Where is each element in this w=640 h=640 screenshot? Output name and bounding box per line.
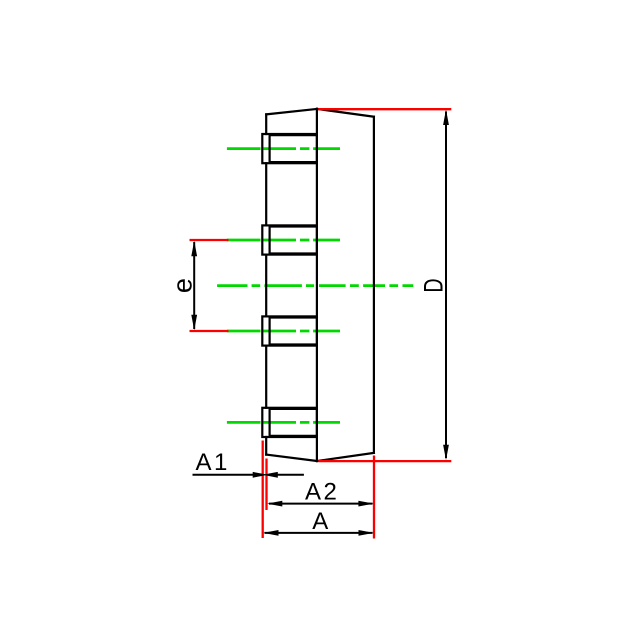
port socket 1 (262, 134, 317, 163)
dimension A1 arrow right-pointing (253, 472, 268, 478)
dimension A1 leader line left (193, 474, 257, 476)
top-left slope (266, 109, 317, 115)
dimension D arrow down (443, 445, 449, 461)
dimension D arrow up (443, 110, 449, 126)
svg-text:e: e (168, 278, 198, 293)
dimension e arrow down (191, 315, 197, 331)
left face wall segments (265, 114, 267, 454)
red extension line e top (190, 239, 229, 241)
svg-text:A: A (312, 508, 328, 535)
red extension line e bottom (190, 330, 229, 332)
port socket 4 (262, 408, 317, 437)
bottom-left slope (266, 455, 317, 461)
red extension line A right (373, 456, 375, 539)
mid joint line (316, 109, 318, 461)
dimension A arrow left (263, 530, 278, 536)
dimension D line (445, 112, 447, 459)
centerline middle axis (217, 284, 413, 287)
dimension A2 line (269, 503, 373, 505)
centerline port 4 (227, 421, 340, 424)
red extension line top (D) (318, 108, 451, 110)
right face wall (373, 117, 375, 453)
red extension line A1 right (265, 459, 267, 511)
svg-text:D: D (418, 278, 448, 292)
body outline (266, 109, 374, 461)
red extension line A1 left (262, 441, 264, 539)
red extension line bottom (D/A) (318, 460, 451, 462)
centerline port 3 (227, 330, 340, 333)
svg-text:A2: A2 (305, 479, 339, 506)
top-right slope (317, 109, 374, 117)
dimension A1 stub line right (275, 474, 304, 476)
dimension A arrow right (359, 530, 374, 536)
dimension A2 arrow left (267, 501, 282, 507)
dimension e arrow up (191, 241, 197, 256)
dimension e line (193, 242, 195, 329)
dimension A line (265, 532, 373, 534)
dimension A2 arrow right (358, 501, 373, 507)
svg-text:A1: A1 (196, 449, 230, 476)
bottom-right slope (317, 453, 374, 461)
centerline port 2 (227, 239, 340, 242)
port socket 3 (262, 316, 317, 345)
centerline port 1 (227, 147, 340, 150)
port socket 2 (262, 225, 317, 254)
dimension A1 arrow left-pointing (263, 472, 278, 478)
